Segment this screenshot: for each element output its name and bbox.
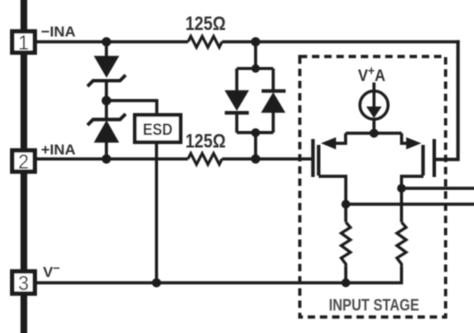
wire stub above current source — [372, 83, 375, 93]
node at -INA / clamp diodes — [251, 37, 260, 46]
wire -INA down right side to Q2 gate — [436, 40, 459, 159]
svg-text:−INA: −INA — [41, 24, 76, 41]
wire between D1 and mid node — [105, 81, 108, 101]
wire Q1 drain — [319, 176, 346, 204]
wire +INA horizontal — [35, 157, 188, 160]
dashed input stage box — [300, 57, 446, 318]
pin header bar (wire) — [21, 0, 28, 333]
node V- / R3 — [341, 278, 350, 287]
node clamp bottom — [251, 128, 260, 137]
resistor R1 125ohm — [188, 36, 222, 47]
transistor Q1 channel bar — [317, 145, 321, 176]
node Q1 drain — [341, 200, 350, 209]
transistor Q2 gate bar — [433, 139, 437, 177]
svg-text:+INA: +INA — [41, 142, 76, 159]
resistor R2 125ohm — [188, 153, 222, 164]
node clamp top — [251, 64, 259, 72]
clamp pair top bar (wire) — [237, 67, 273, 70]
transistor Q2 channel bar — [421, 145, 425, 176]
wire clamp bottom to +INA — [254, 133, 257, 159]
clamp right branch lower wire — [272, 112, 275, 133]
wire ESD to V- rail — [155, 143, 158, 283]
clamp right branch wire — [272, 69, 275, 92]
wire Q1 source step — [334, 133, 346, 143]
diode D3 (anode up) — [225, 91, 249, 113]
node Q2 drain — [397, 184, 406, 193]
resistor R3 (left load) — [341, 222, 350, 266]
svg-text:1: 1 — [18, 32, 29, 55]
node zener midpoint — [102, 96, 112, 106]
node +INA / zener column — [102, 154, 111, 163]
svg-text:125Ω: 125Ω — [185, 13, 225, 34]
clamp left branch lower wire — [235, 113, 238, 133]
svg-text:2: 2 — [18, 151, 29, 174]
svg-text:3: 3 — [18, 272, 29, 295]
wire current source to tail node — [372, 119, 375, 133]
node V- / ESD — [152, 278, 161, 287]
ESD box — [135, 115, 181, 142]
node at -INA / zener column — [102, 37, 111, 46]
wire R3 to V- rail — [344, 266, 347, 282]
wire output A (Q1 drain to right edge) — [346, 203, 474, 206]
wire -INA horizontal — [35, 40, 188, 43]
current source I1 — [360, 91, 388, 119]
wire R4 to V- rail — [400, 266, 403, 282]
zener diode D1 (cathode down) — [88, 57, 126, 87]
resistor R4 (right load) — [397, 222, 406, 266]
node tail — [370, 129, 379, 138]
clamp pair bottom bar (wire) — [237, 131, 273, 134]
pin 1 — [12, 31, 35, 54]
wire zener column top — [105, 42, 108, 57]
node +INA / clamp diodes — [251, 154, 260, 163]
svg-text:ESD: ESD — [143, 121, 173, 139]
pin 2 — [12, 150, 35, 173]
diode D4 (anode down) — [262, 91, 286, 112]
wire tail rail — [346, 132, 402, 135]
transistor Q1 source arrow — [321, 137, 336, 149]
svg-text:125Ω: 125Ω — [185, 131, 225, 152]
wire V- horizontal — [35, 281, 403, 284]
clamp left branch wire — [235, 69, 238, 92]
wire output B (Q2 drain to right edge) — [402, 187, 474, 190]
wire Q2 source step — [402, 133, 408, 143]
transistor Q1 gate bar — [311, 139, 315, 177]
transistor Q2 source arrow — [406, 137, 421, 149]
wire Q1 drain to R3 — [344, 204, 347, 222]
wire mid node to ESD — [106, 101, 156, 113]
pin 3 — [12, 271, 35, 295]
wire clamp column top — [254, 42, 257, 69]
svg-text:INPUT STAGE: INPUT STAGE — [329, 296, 419, 315]
wire Q2 drain to R4 — [400, 188, 403, 222]
zener diode D2 (cathode up) — [88, 114, 126, 142]
wire D2 to +INA — [105, 142, 108, 159]
wire Q2 drain — [402, 176, 424, 188]
